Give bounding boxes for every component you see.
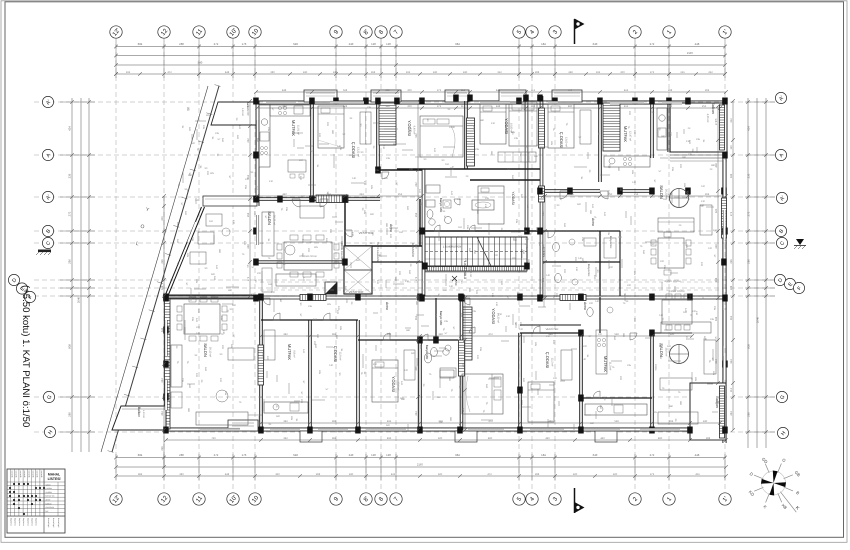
bed yodasi top-mid [420, 116, 463, 157]
grid bubble right A' [775, 92, 786, 103]
svg-text:305: 305 [267, 217, 270, 222]
hatch segment bottom mid wall [459, 340, 465, 376]
svg-text:120: 120 [475, 290, 478, 295]
grid bubble top 11 [193, 26, 205, 38]
svg-text:200: 200 [407, 89, 412, 92]
svg-text:120: 120 [260, 242, 265, 245]
svg-text:140: 140 [603, 212, 606, 217]
svg-text:220: 220 [633, 318, 636, 323]
svg-text:380: 380 [669, 405, 674, 408]
svg-text:336: 336 [68, 173, 72, 178]
svg-text:220: 220 [609, 266, 614, 269]
svg-text:304: 304 [705, 89, 710, 92]
corridor wall right of shaft [372, 261, 423, 263]
grid bubble right A [775, 149, 786, 160]
svg-text:120: 120 [552, 340, 555, 345]
wall salon right bottom-left [259, 298, 261, 430]
svg-text:112: 112 [730, 387, 733, 392]
svg-text:220: 220 [619, 187, 622, 192]
wardrobe top-right [498, 152, 536, 162]
kitchen top counter top-left [270, 105, 310, 116]
svg-text:140: 140 [659, 314, 664, 317]
hatch segment salon-left wall lower [539, 186, 545, 202]
wm top-left [443, 200, 451, 208]
grid bubble bottom 8 [375, 493, 387, 505]
svg-text:Antre: Antre [591, 218, 595, 226]
small table mutfak top-left [288, 160, 306, 172]
svg-text:140: 140 [215, 265, 218, 270]
elevator shaft [344, 246, 372, 294]
svg-text:162: 162 [642, 250, 645, 255]
svg-text:120: 120 [336, 310, 339, 315]
svg-text:305: 305 [327, 303, 332, 306]
grid bubble bottom 1' [719, 493, 731, 505]
svg-text:200: 200 [407, 105, 412, 108]
svg-text:528: 528 [343, 89, 348, 92]
bay window top 4 [499, 90, 526, 102]
svg-text:140: 140 [329, 364, 334, 367]
svg-text:235: 235 [523, 230, 528, 233]
svg-text:288: 288 [535, 71, 540, 74]
svg-text:13,22 m²: 13,22 m² [357, 147, 360, 157]
svg-text:220: 220 [494, 254, 499, 257]
svg-text:140: 140 [352, 177, 357, 180]
svg-text:240: 240 [433, 71, 438, 74]
svg-text:640: 640 [593, 453, 598, 457]
svg-text:305: 305 [712, 371, 715, 376]
svg-text:305: 305 [339, 326, 342, 331]
svg-text:380: 380 [218, 249, 221, 254]
building outer wall left upper [255, 101, 257, 206]
wall balcony left top-right [667, 101, 669, 152]
svg-text:120: 120 [371, 42, 376, 46]
svg-text:232: 232 [708, 71, 713, 74]
svg-text:220: 220 [628, 111, 631, 116]
svg-text:248: 248 [715, 244, 718, 249]
svg-text:MUTFAK: MUTFAK [603, 356, 608, 373]
bed yodasi bottom-left [372, 360, 398, 402]
svg-text:220: 220 [589, 302, 594, 305]
svg-text:500: 500 [406, 206, 409, 211]
grid bubble left A [42, 149, 53, 160]
svg-text:220: 220 [329, 229, 332, 234]
grid bubble top 10 [249, 26, 261, 38]
grid bubble left E [16, 283, 27, 294]
svg-text:380: 380 [622, 333, 625, 338]
svg-text:410: 410 [351, 232, 354, 237]
svg-text:1.N.MERDİVEN: 1.N.MERDİVEN [443, 245, 462, 249]
svg-text:YEMEK ODASI: YEMEK ODASI [667, 290, 685, 293]
grid bubble right D [774, 274, 785, 285]
svg-text:112: 112 [531, 105, 536, 108]
svg-text:235: 235 [696, 138, 701, 141]
armchairs near slanted wall upper-left [206, 214, 222, 226]
svg-text:235: 235 [375, 169, 380, 172]
svg-text:280: 280 [542, 211, 545, 216]
svg-text:162: 162 [522, 250, 525, 255]
svg-text:500: 500 [314, 344, 317, 349]
hatched wall top-right [603, 103, 620, 151]
top dimension lines [114, 39, 727, 79]
dimension chain mid horizontal lower [261, 335, 692, 337]
svg-text:496: 496 [387, 420, 392, 423]
svg-text:220: 220 [679, 164, 682, 169]
svg-text:272: 272 [247, 276, 250, 281]
svg-text:12,2 m²: 12,2 m² [551, 358, 554, 367]
svg-text:120: 120 [266, 356, 269, 361]
svg-text:272: 272 [650, 453, 655, 457]
svg-text:+5.50: +5.50 [454, 278, 458, 286]
salon slanted left wall upper-left unit [165, 207, 202, 297]
grid bubble bottom 8' [360, 493, 372, 505]
kitchen top-right [604, 156, 650, 167]
grid bubble top 1' [719, 26, 731, 38]
svg-text:264: 264 [161, 378, 164, 383]
svg-text:410: 410 [506, 315, 511, 318]
svg-text:120: 120 [219, 378, 222, 383]
wc bottom-left [424, 353, 431, 363]
svg-text:140: 140 [595, 300, 600, 303]
svg-text:152: 152 [385, 89, 390, 92]
salon window band under balcony [670, 154, 727, 156]
svg-text:14,85 m²: 14,85 m² [469, 267, 472, 277]
svg-text:merdiven: merdiven [46, 506, 55, 509]
svg-text:235: 235 [215, 132, 220, 135]
svg-text:235: 235 [472, 310, 477, 313]
svg-text:380: 380 [589, 210, 592, 215]
svg-text:380: 380 [385, 223, 388, 228]
svg-text:568: 568 [614, 420, 619, 423]
svg-text:220: 220 [349, 154, 354, 157]
svg-text:162: 162 [607, 190, 610, 195]
svg-text:162: 162 [473, 250, 476, 255]
svg-text:162: 162 [176, 222, 179, 227]
svg-text:MAHAL: MAHAL [48, 473, 60, 477]
svg-text:140: 140 [632, 181, 637, 184]
svg-text:410: 410 [491, 122, 496, 125]
svg-text:280: 280 [179, 42, 184, 46]
svg-text:140: 140 [546, 274, 551, 277]
svg-text:162: 162 [279, 298, 282, 303]
svg-text:120: 120 [708, 247, 713, 250]
svg-text:432: 432 [391, 473, 396, 476]
svg-text:256: 256 [247, 212, 250, 217]
svg-text:140: 140 [578, 257, 583, 260]
svg-text:220: 220 [342, 290, 345, 295]
svg-text:140: 140 [434, 314, 437, 319]
svg-text:120: 120 [195, 373, 198, 378]
windows left walls [257, 120, 259, 150]
svg-text:500: 500 [370, 213, 375, 216]
svg-text:264: 264 [359, 193, 364, 196]
svg-text:384: 384 [138, 453, 143, 457]
svg-text:Balkon: Balkon [137, 407, 141, 417]
wall antre top-left [380, 169, 422, 171]
svg-text:1.KAT HOLÜ: 1.KAT HOLÜ [463, 261, 467, 280]
svg-text:banyo-wc: banyo-wc [46, 495, 55, 498]
svg-text:235: 235 [688, 153, 693, 156]
svg-text:305: 305 [370, 185, 373, 190]
svg-text:410: 410 [713, 229, 718, 232]
chain bottom mid vertical [464, 298, 466, 430]
svg-text:384: 384 [138, 473, 143, 476]
grid bubble bottom 9 [330, 493, 342, 505]
svg-text:808: 808 [68, 344, 72, 349]
wall mutfak right top-right [650, 101, 652, 158]
svg-text:500: 500 [400, 397, 405, 400]
svg-text:272: 272 [214, 453, 219, 457]
svg-text:304: 304 [705, 193, 710, 196]
svg-text:235: 235 [386, 157, 391, 160]
svg-text:2187: 2187 [687, 51, 694, 55]
svg-text:120: 120 [730, 145, 733, 150]
svg-text:336: 336 [462, 316, 465, 321]
svg-text:seramik: seramik [11, 471, 14, 478]
svg-text:220: 220 [669, 132, 672, 137]
svg-text:410: 410 [701, 200, 706, 203]
svg-text:410: 410 [373, 363, 378, 366]
grid bubble bottom 12 [158, 493, 170, 505]
svg-text:472: 472 [167, 71, 172, 74]
svg-text:140: 140 [593, 275, 596, 280]
main stair bottom edge [425, 267, 527, 272]
svg-text:220: 220 [300, 399, 303, 404]
svg-text:9,8 m²: 9,8 m² [293, 350, 296, 357]
svg-text:120: 120 [253, 211, 256, 216]
svg-text:220: 220 [257, 272, 262, 275]
svg-text:528: 528 [343, 105, 348, 108]
svg-text:235: 235 [485, 197, 490, 200]
kitchen bottom-right [585, 404, 647, 415]
svg-text:29,10 m²: 29,10 m² [209, 347, 212, 357]
svg-text:264: 264 [161, 411, 164, 416]
svg-text:120: 120 [703, 338, 708, 341]
wall banyo bottom-right [518, 333, 520, 430]
svg-text:380: 380 [468, 288, 471, 293]
svg-text:496: 496 [387, 333, 392, 336]
terrace edges bottom [300, 431, 322, 442]
svg-text:184: 184 [541, 453, 546, 457]
grid bubble left D [8, 274, 19, 285]
wardrobe bottom-right [561, 350, 572, 380]
svg-text:192: 192 [596, 71, 601, 74]
svg-text:296: 296 [68, 259, 72, 264]
svg-text:120: 120 [460, 313, 463, 318]
svg-text:200: 200 [247, 111, 250, 116]
grid bubble left B [42, 225, 53, 236]
svg-text:500: 500 [301, 239, 304, 244]
svg-text:380: 380 [534, 155, 539, 158]
grid bubble bottom 2 [629, 493, 641, 505]
svg-text:384: 384 [138, 42, 143, 46]
svg-text:235: 235 [367, 106, 372, 109]
svg-text:162: 162 [268, 283, 273, 286]
svg-text:410: 410 [464, 258, 467, 263]
svg-text:380: 380 [301, 253, 304, 258]
svg-text:380: 380 [599, 405, 602, 410]
kitchen bottom-left [264, 402, 308, 413]
tv unit top-left [262, 268, 272, 292]
banyo fixtures top-right [553, 242, 560, 251]
svg-text:MUTFAK: MUTFAK [291, 120, 296, 137]
svg-text:380: 380 [437, 396, 442, 399]
svg-text:448: 448 [496, 105, 501, 108]
svg-text:500: 500 [232, 304, 237, 307]
building outer wall bottom [166, 427, 726, 429]
svg-text:Balkon: Balkon [246, 101, 250, 111]
windows top wall [266, 101, 296, 103]
banyo cluster bottom-center walls [599, 297, 601, 333]
svg-text:410: 410 [232, 220, 235, 225]
window slits slanted wall [188, 222, 196, 242]
svg-text:424: 424 [747, 126, 751, 131]
svg-text:312: 312 [497, 71, 502, 74]
svg-text:128: 128 [730, 285, 733, 290]
svg-text:305: 305 [631, 170, 634, 175]
svg-text:500: 500 [301, 195, 306, 198]
hatch segment salon-left wall top-right [539, 108, 545, 148]
svg-text:235: 235 [514, 137, 519, 140]
svg-text:balkon: balkon [46, 502, 53, 505]
wall vestiyer top-left [344, 199, 346, 246]
grid bubble bottom 10 [249, 493, 261, 505]
grid bubble bottom 3 [549, 493, 561, 505]
svg-text:12,47 m²: 12,47 m² [629, 131, 632, 141]
svg-text:500: 500 [659, 355, 662, 360]
windows bottom wall [200, 428, 240, 430]
svg-text:220: 220 [627, 284, 632, 287]
svg-text:120: 120 [196, 332, 201, 335]
grid bubble right H [777, 427, 788, 438]
building outer wall left lower hatched [165, 298, 171, 429]
grid bubble right F [793, 282, 804, 293]
svg-text:235: 235 [444, 320, 449, 323]
svg-text:544: 544 [161, 327, 164, 332]
wall mutfak bottom-right [581, 397, 652, 399]
svg-text:220: 220 [271, 291, 276, 294]
svg-text:288: 288 [706, 437, 711, 440]
structural columns [253, 98, 259, 105]
svg-text:400: 400 [462, 362, 465, 367]
svg-text:235: 235 [285, 207, 288, 212]
svg-text:120: 120 [389, 234, 392, 239]
svg-text:162: 162 [618, 236, 623, 239]
svg-text:235: 235 [224, 391, 227, 396]
bed codasi top-right [548, 104, 574, 148]
svg-text:424: 424 [68, 126, 72, 131]
dimension chain left of building [163, 196, 165, 467]
svg-text:4,05 m²: 4,05 m² [706, 114, 709, 123]
balcony bottom left [112, 406, 166, 430]
svg-text:248: 248 [247, 244, 250, 249]
svg-text:13,60 m²: 13,60 m² [565, 137, 568, 147]
svg-text:140: 140 [302, 349, 305, 354]
svg-text:220: 220 [536, 144, 541, 147]
hatch segment bottom-left unit wall [258, 345, 264, 385]
svg-text:140: 140 [684, 308, 687, 313]
svg-text:380: 380 [590, 422, 595, 425]
svg-text:140: 140 [449, 285, 454, 288]
svg-text:162: 162 [325, 238, 328, 243]
grid bubble bottom 7 [390, 493, 402, 505]
svg-text:410: 410 [405, 280, 410, 283]
svg-text:380: 380 [599, 295, 604, 298]
svg-text:392: 392 [283, 420, 288, 423]
svg-text:256: 256 [702, 105, 707, 108]
svg-text:440: 440 [282, 193, 287, 196]
svg-text:235: 235 [515, 219, 518, 224]
hatched wall top-mid [467, 118, 475, 166]
svg-text:seramik: seramik [19, 471, 22, 478]
svg-text:seramik: seramik [27, 471, 30, 478]
svg-text:305: 305 [290, 416, 293, 421]
wall codasi top-right [598, 101, 600, 182]
bay window top 5 [552, 90, 582, 102]
svg-text:162: 162 [213, 276, 216, 281]
svg-text:305: 305 [550, 141, 553, 146]
svg-text:235: 235 [181, 378, 184, 383]
svg-text:248: 248 [415, 244, 418, 249]
svg-text:305: 305 [210, 172, 215, 175]
corridor dashes [260, 281, 720, 283]
grid bubble right A' [776, 192, 787, 203]
svg-text:12,9 m²: 12,9 m² [339, 352, 342, 361]
svg-text:272: 272 [650, 71, 655, 74]
svg-text:235: 235 [627, 364, 632, 367]
svg-text:162: 162 [520, 194, 523, 199]
compass rose [748, 456, 802, 512]
wall mutfak right top-left [310, 101, 312, 198]
svg-text:162: 162 [451, 166, 454, 171]
svg-text:272: 272 [747, 211, 751, 216]
doors bottom-right [533, 326, 540, 333]
svg-text:235: 235 [466, 225, 469, 230]
svg-text:140: 140 [433, 148, 436, 153]
svg-text:seramik: seramik [23, 471, 26, 478]
chain right inner vertical [717, 106, 719, 383]
svg-text:140: 140 [450, 191, 453, 196]
svg-text:162: 162 [458, 226, 463, 229]
svg-text:162: 162 [221, 138, 224, 143]
svg-text:MUTFAK: MUTFAK [623, 126, 628, 143]
svg-text:336: 336 [747, 173, 751, 178]
svg-text:1,30 m²: 1,30 m² [241, 108, 244, 116]
chain salon top-right inner [543, 195, 726, 197]
svg-text:336: 336 [715, 316, 718, 321]
svg-text:380: 380 [331, 130, 334, 135]
svg-text:235: 235 [267, 127, 270, 132]
svg-text:305: 305 [683, 183, 686, 188]
svg-text:312: 312 [730, 118, 733, 123]
svg-text:220: 220 [654, 364, 657, 369]
sofa set bottom-left [171, 345, 182, 387]
grid bubble top 2 [629, 26, 641, 38]
svg-text:Banyo+Wc: Banyo+Wc [609, 236, 612, 249]
dining bottom-right [662, 300, 692, 324]
dimension chain above top wall [256, 91, 726, 93]
svg-text:472: 472 [488, 420, 493, 423]
svg-text:162: 162 [663, 198, 668, 201]
svg-text:kaplama: kaplama [35, 518, 38, 526]
svg-text:11,91 m²: 11,91 m² [297, 125, 300, 135]
wall salon top edge right unit [543, 189, 600, 191]
svg-text:y.odası: y.odası [46, 487, 53, 490]
svg-text:120: 120 [386, 453, 391, 457]
svg-text:410: 410 [363, 181, 366, 186]
svg-text:440: 440 [545, 437, 550, 440]
core wall right [524, 96, 526, 232]
bottom dimension lines [114, 453, 728, 480]
